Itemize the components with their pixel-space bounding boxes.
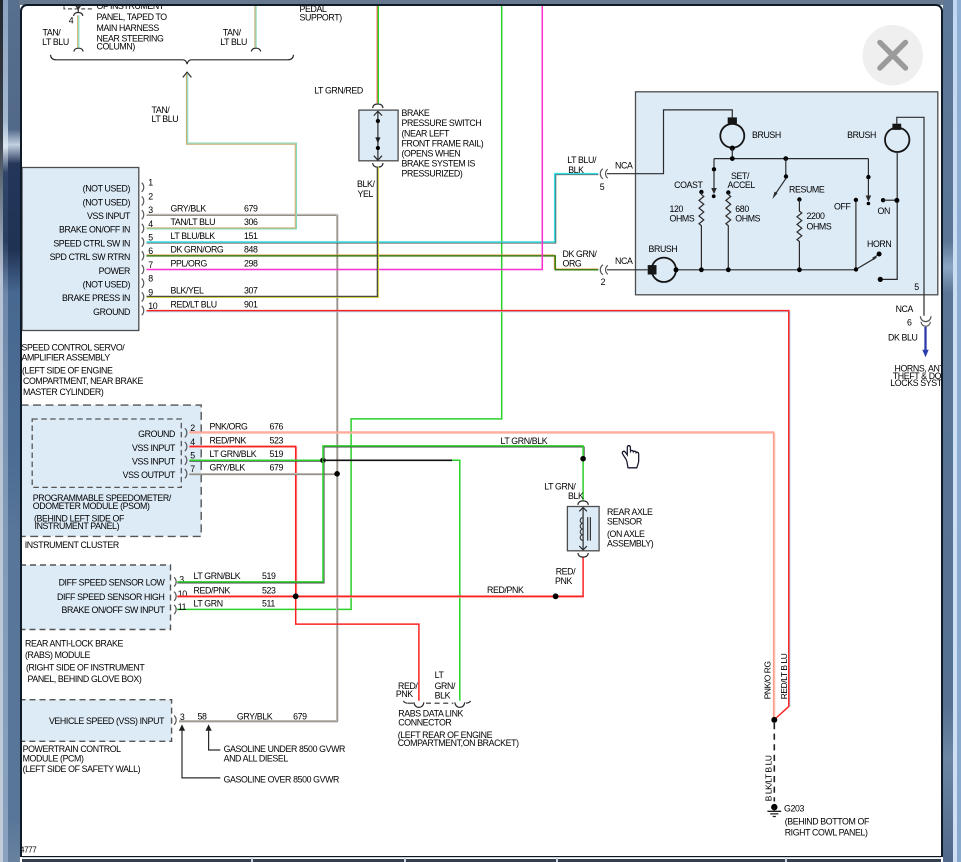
- svg-text:5: 5: [914, 282, 919, 292]
- svg-text:VSS INPUT: VSS INPUT: [131, 442, 175, 452]
- instrument cluster outer dashed box: [20, 405, 201, 536]
- svg-text:(BEHIND BOTTOM OF: (BEHIND BOTTOM OF: [784, 816, 869, 826]
- svg-text:OHMS: OHMS: [806, 221, 831, 231]
- svg-text:OHMS: OHMS: [669, 213, 694, 223]
- resume switch: [784, 158, 786, 175]
- svg-text:RED/LT B LU: RED/LT B LU: [779, 653, 789, 699]
- svg-text:COLUMN): COLUMN): [96, 41, 135, 51]
- svg-text:BLK: BLK: [434, 690, 450, 700]
- svg-text:RIGHT COWL PANEL): RIGHT COWL PANEL): [784, 827, 867, 837]
- splice box (dashed, cut at top): [64, 0, 92, 8]
- svg-text:3: 3: [148, 205, 153, 215]
- splice symbol: [74, 3, 81, 8]
- svg-text:4: 4: [68, 15, 73, 25]
- svg-text:LT GRN/BLK: LT GRN/BLK: [209, 449, 256, 459]
- PCM dashed box: [19, 699, 171, 741]
- svg-text:676: 676: [269, 421, 283, 431]
- svg-text:DK BLU: DK BLU: [888, 332, 918, 342]
- coast switch: [713, 158, 715, 168]
- red drop to data link: [295, 596, 418, 701]
- svg-text:DK GRN/: DK GRN/: [562, 248, 597, 258]
- svg-text:RESUME: RESUME: [789, 184, 825, 194]
- svg-text:PANEL, BEHIND GLOVE BOX): PANEL, BEHIND GLOVE BOX): [27, 673, 141, 683]
- svg-text:298: 298: [244, 258, 258, 268]
- svg-text:679: 679: [293, 711, 307, 721]
- svg-text:BLK: BLK: [568, 164, 584, 174]
- DK BLU arrow wire: [924, 327, 926, 351]
- svg-text:519: 519: [269, 449, 283, 459]
- svg-text:BLK/YEL: BLK/YEL: [170, 285, 204, 295]
- svg-text:306: 306: [244, 217, 258, 227]
- off-on selector from rail: [867, 158, 869, 175]
- svg-text:COMPARTMENT, NEAR BRAKE: COMPARTMENT, NEAR BRAKE: [23, 375, 143, 385]
- svg-text:GRY/BLK: GRY/BLK: [209, 462, 245, 472]
- svg-text:MODULE (PCM): MODULE (PCM): [22, 753, 83, 763]
- wire GRY/BLK to PCM: [179, 720, 338, 722]
- dashed BLK/LT BLU wire to ground: [773, 723, 775, 802]
- svg-text:LT GRN: LT GRN: [193, 598, 222, 608]
- ground G203: [771, 803, 777, 809]
- svg-text:LT: LT: [434, 669, 444, 679]
- wire pin5 NCA to top motor: [607, 109, 732, 173]
- svg-text:TAN/LT BLU: TAN/LT BLU: [170, 217, 215, 227]
- svg-text:BRAKE ON/OFF SW INPUT: BRAKE ON/OFF SW INPUT: [61, 605, 165, 615]
- wire LT BLU/BLK 151 servo pin5: [146, 174, 598, 242]
- wire M1 to rail: [731, 148, 733, 159]
- black wire from junction to data link drop: [323, 459, 452, 461]
- svg-text:2: 2: [600, 277, 605, 287]
- svg-text:523: 523: [262, 585, 276, 595]
- svg-text:DIFF SPEED SENSOR HIGH: DIFF SPEED SENSOR HIGH: [57, 592, 165, 602]
- svg-text:680: 680: [735, 204, 749, 214]
- PSOM inner dashed box: [32, 419, 181, 487]
- set/accel contact + 680 ohms: [726, 190, 730, 194]
- svg-text:LT BLU: LT BLU: [42, 36, 69, 46]
- harness brace: [50, 54, 293, 63]
- off contact: [853, 197, 857, 201]
- wire M3 bottom down: [880, 152, 897, 279]
- svg-text:848: 848: [244, 244, 258, 254]
- close button: [862, 25, 922, 85]
- svg-text:ORG: ORG: [562, 258, 581, 268]
- svg-text:(NOT USED): (NOT USED): [82, 279, 130, 289]
- arrow up to brace: [182, 72, 191, 77]
- svg-text:PNK/ORG: PNK/ORG: [209, 421, 247, 431]
- svg-text:OF INSTRUMENT: OF INSTRUMENT: [96, 6, 164, 11]
- svg-text:4: 4: [148, 218, 153, 228]
- NCA connector bottom (pin2): [600, 264, 603, 274]
- svg-text:SUPPORT): SUPPORT): [299, 12, 342, 22]
- svg-text:58: 58: [197, 711, 207, 721]
- svg-text:ASSEMBLY): ASSEMBLY): [607, 538, 654, 548]
- svg-text:LT GRN/BLK: LT GRN/BLK: [500, 435, 547, 445]
- gvwr arrows: [178, 724, 184, 730]
- svg-text:OFF: OFF: [834, 201, 851, 211]
- svg-text:GROUND: GROUND: [138, 429, 175, 439]
- svg-text:NCA: NCA: [895, 303, 913, 313]
- svg-text:RED/PNK: RED/PNK: [487, 584, 524, 594]
- svg-text:VSS INPUT: VSS INPUT: [131, 456, 175, 466]
- svg-text:BRAKE ON/OFF IN: BRAKE ON/OFF IN: [58, 224, 129, 234]
- svg-text:BRUSH: BRUSH: [847, 130, 876, 140]
- svg-text:8: 8: [148, 273, 153, 283]
- bottom bus: [676, 268, 856, 270]
- svg-text:LT BLU/: LT BLU/: [567, 154, 597, 164]
- wire LT GRN long from top to RABS pin11: [177, 5, 502, 609]
- svg-text:AMPLIFIER ASSEMBLY: AMPLIFIER ASSEMBLY: [22, 352, 110, 362]
- svg-text:LT BLU: LT BLU: [220, 36, 247, 46]
- svg-text:GRY/BLK: GRY/BLK: [170, 203, 206, 213]
- svg-text:PPL/ORG: PPL/ORG: [170, 258, 207, 268]
- svg-text:(NOT USED): (NOT USED): [82, 183, 130, 193]
- wire TAN/LT BLU from top edge: [253, 5, 255, 47]
- svg-text:519: 519: [262, 571, 276, 581]
- junction dot PNK/ORG + RED/LT BLU: [771, 716, 777, 722]
- resistor 2200 ohms: [797, 197, 801, 201]
- svg-text:NCA: NCA: [615, 256, 633, 266]
- speed control switch assembly box: [635, 91, 937, 294]
- svg-text:B LK/LT B LU: B LK/LT B LU: [763, 755, 773, 801]
- svg-text:DK GRN/ORG: DK GRN/ORG: [170, 244, 223, 254]
- svg-text:(RIGHT SIDE OF INSTRUMENT: (RIGHT SIDE OF INSTRUMENT: [26, 662, 145, 672]
- svg-text:BLK: BLK: [568, 491, 584, 501]
- svg-text:LT BLU/BLK: LT BLU/BLK: [170, 230, 215, 240]
- svg-text:4: 4: [190, 436, 195, 446]
- PSOM pin terminals 2,4,5,7: [184, 428, 186, 437]
- svg-text:PNK: PNK: [395, 689, 412, 699]
- junction dots: [320, 457, 326, 463]
- svg-text:4777: 4777: [22, 845, 37, 854]
- svg-text:DIFF SPEED SENSOR LOW: DIFF SPEED SENSOR LOW: [58, 577, 165, 587]
- mouse cursor: [622, 445, 638, 467]
- svg-text:5: 5: [148, 232, 153, 242]
- wire DK GRN/ORG 848 servo pin6: [146, 254, 598, 268]
- svg-text:679: 679: [244, 203, 258, 213]
- red net: RABS pin10 to sensor bottom: [177, 596, 584, 598]
- svg-text:G203: G203: [784, 803, 804, 813]
- on contact: [880, 198, 884, 202]
- svg-text:2: 2: [148, 191, 153, 201]
- svg-text:SENSOR: SENSOR: [607, 516, 642, 526]
- svg-text:NCA: NCA: [615, 160, 633, 170]
- svg-text:11: 11: [177, 601, 186, 611]
- svg-text:BRAKE SYSTEM IS: BRAKE SYSTEM IS: [401, 158, 475, 168]
- svg-text:LOCKS SYSTEMS: LOCKS SYSTEMS: [890, 378, 941, 388]
- brake pressure switch: [372, 104, 382, 108]
- svg-text:INSTRUMENT CLUSTER: INSTRUMENT CLUSTER: [24, 539, 118, 549]
- svg-text:679: 679: [269, 462, 283, 472]
- horn switch: [856, 257, 876, 269]
- svg-text:ODOMETER MODULE (PSOM): ODOMETER MODULE (PSOM): [32, 501, 149, 511]
- svg-text:POWER: POWER: [98, 265, 129, 275]
- svg-text:RED/LT BLU: RED/LT BLU: [170, 299, 216, 309]
- svg-text:AND ALL DIESEL: AND ALL DIESEL: [223, 753, 288, 763]
- RABS module dashed box: [20, 565, 171, 630]
- svg-text:BLK/: BLK/: [357, 179, 375, 189]
- svg-text:BRAKE PRESS IN: BRAKE PRESS IN: [61, 293, 129, 303]
- svg-text:GROUND: GROUND: [93, 306, 130, 316]
- motor M1 brush (top left): [720, 123, 744, 147]
- motor M2 brush (bottom left): [651, 257, 675, 281]
- wire RED/PNK 523 psom pin4: [189, 447, 296, 596]
- wire TAN/LT BLU 306 servo pin4: [146, 74, 296, 229]
- svg-text:ON: ON: [877, 205, 889, 215]
- coil bumps: [580, 517, 583, 540]
- svg-text:GASOLINE OVER 8500 GVWR: GASOLINE OVER 8500 GVWR: [223, 774, 338, 784]
- svg-text:(NEAR LEFT: (NEAR LEFT: [401, 128, 450, 138]
- svg-text:6: 6: [907, 317, 912, 327]
- speed control servo/amplifier assembly box: [22, 167, 139, 330]
- svg-text:5: 5: [599, 182, 604, 192]
- svg-text:PRESSURIZED): PRESSURIZED): [401, 168, 462, 178]
- svg-text:LT GRN/BLK: LT GRN/BLK: [193, 571, 240, 581]
- wire NCA pin2 to M2 tab: [607, 268, 648, 270]
- svg-text:REAR ANTI-LOCK BRAKE: REAR ANTI-LOCK BRAKE: [25, 638, 124, 648]
- svg-text:120: 120: [669, 204, 683, 214]
- svg-text:SPD CTRL SW RTRN: SPD CTRL SW RTRN: [49, 252, 129, 262]
- servo pin terminals 1-10: [141, 182, 143, 191]
- wire LT GRN/BLK psom pin5: [189, 460, 323, 462]
- wire PPL/ORG 298 servo pin7: [146, 5, 542, 269]
- svg-text:SPEED CTRL SW IN: SPEED CTRL SW IN: [53, 238, 130, 248]
- svg-text:RED/PNK: RED/PNK: [209, 435, 246, 445]
- svg-text:LT GRN/RED: LT GRN/RED: [314, 85, 363, 95]
- svg-text:INSTRUMENT PANEL): INSTRUMENT PANEL): [34, 521, 119, 531]
- svg-text:2200: 2200: [806, 210, 825, 220]
- svg-text:FRONT FRAME RAIL): FRONT FRAME RAIL): [401, 138, 483, 148]
- NCA connector top (pin5): [600, 168, 603, 178]
- resistor 120 ohms: [699, 189, 703, 193]
- svg-text:BRAKE: BRAKE: [401, 108, 429, 118]
- wire LT GRN/RED from top to brake switch: [376, 5, 378, 103]
- svg-text:511: 511: [262, 598, 275, 608]
- svg-text:523: 523: [269, 435, 283, 445]
- connector arc under splice: [73, 12, 82, 15]
- svg-text:(NOT USED): (NOT USED): [82, 197, 130, 207]
- svg-text:(RABS) MODULE: (RABS) MODULE: [25, 649, 90, 659]
- svg-text:LT BLU: LT BLU: [151, 114, 178, 124]
- svg-text:VEHICLE SPEED (VSS) INPUT: VEHICLE SPEED (VSS) INPUT: [48, 715, 164, 725]
- svg-text:ACCEL: ACCEL: [727, 180, 755, 190]
- wire TAN/LT BLU from splice down: [76, 15, 78, 47]
- svg-text:7: 7: [190, 464, 195, 474]
- svg-text:GRY/BLK: GRY/BLK: [236, 711, 272, 721]
- svg-text:RED/: RED/: [555, 566, 575, 576]
- svg-text:(LEFT SIDE OF SAFETY WALL): (LEFT SIDE OF SAFETY WALL): [22, 763, 140, 773]
- svg-text:COMPARTMENT,ON BRACKET): COMPARTMENT,ON BRACKET): [397, 737, 518, 747]
- wire PNK/ORG 676 psom pin2: [189, 432, 773, 717]
- svg-text:PRESSURE SWITCH: PRESSURE SWITCH: [401, 118, 481, 128]
- rear axle sensor: [577, 500, 587, 504]
- svg-text:MASTER CYLINDER): MASTER CYLINDER): [23, 386, 104, 396]
- motor M3 brush (right): [885, 127, 909, 151]
- svg-text:YEL: YEL: [357, 188, 373, 198]
- green net: RABS pin3 up to LT GRN/BLK rail over to sensor: [177, 447, 584, 583]
- svg-text:1: 1: [148, 177, 153, 187]
- svg-text:GASOLINE UNDER 8500 GVWR: GASOLINE UNDER 8500 GVWR: [223, 743, 344, 753]
- svg-text:LT GRN/: LT GRN/: [544, 481, 576, 491]
- svg-text:MAIN HARNESS: MAIN HARNESS: [96, 23, 159, 33]
- svg-text:7: 7: [148, 259, 153, 269]
- svg-text:BRUSH: BRUSH: [752, 130, 781, 140]
- svg-text:VSS OUTPUT: VSS OUTPUT: [122, 470, 175, 480]
- wire BLK/YEL 307 servo pin9 to brake switch: [146, 166, 378, 297]
- RABS pin terminals 3,10,11: [174, 577, 176, 586]
- wire GRY/BLK psom pin7: [189, 473, 337, 475]
- svg-text:5: 5: [190, 450, 195, 460]
- terminal arc: [251, 48, 260, 51]
- svg-text:BRUSH: BRUSH: [648, 243, 677, 253]
- svg-text:901: 901: [244, 299, 258, 309]
- svg-text:(ON AXLE: (ON AXLE: [607, 529, 645, 539]
- RABS data link connector: [403, 700, 413, 702]
- svg-text:SPEED CONTROL SERVO/: SPEED CONTROL SERVO/: [22, 342, 125, 352]
- svg-text:(OPENS WHEN: (OPENS WHEN: [401, 148, 460, 158]
- svg-text:(LEFT SIDE OF ENGINE: (LEFT SIDE OF ENGINE: [22, 365, 113, 375]
- terminal arc at bottom: [73, 48, 82, 51]
- svg-text:OHMS: OHMS: [735, 213, 760, 223]
- rail: [714, 157, 868, 159]
- wire RED/LT BLU 901 servo pin10: [146, 311, 789, 706]
- svg-text:HORN: HORN: [867, 239, 891, 249]
- wire M3 tab up and right, down to pin 5 out: [896, 117, 923, 315]
- svg-text:CONNECTOR: CONNECTOR: [398, 717, 451, 727]
- svg-text:PNK: PNK: [555, 576, 572, 586]
- svg-text:151: 151: [244, 230, 258, 240]
- svg-text:RED/PNK: RED/PNK: [193, 585, 230, 595]
- svg-text:307: 307: [244, 285, 258, 295]
- core lines: [587, 517, 590, 541]
- wire GRY/BLK 679 servo pin3 to PCM: [146, 215, 337, 721]
- svg-text:10: 10: [148, 301, 158, 311]
- svg-text:PANEL, TAPED TO: PANEL, TAPED TO: [96, 12, 167, 22]
- svg-text:COAST: COAST: [674, 179, 703, 189]
- node below M1: [729, 145, 734, 150]
- svg-text:PNK/O RG: PNK/O RG: [762, 661, 772, 699]
- svg-text:VSS INPUT: VSS INPUT: [86, 211, 130, 221]
